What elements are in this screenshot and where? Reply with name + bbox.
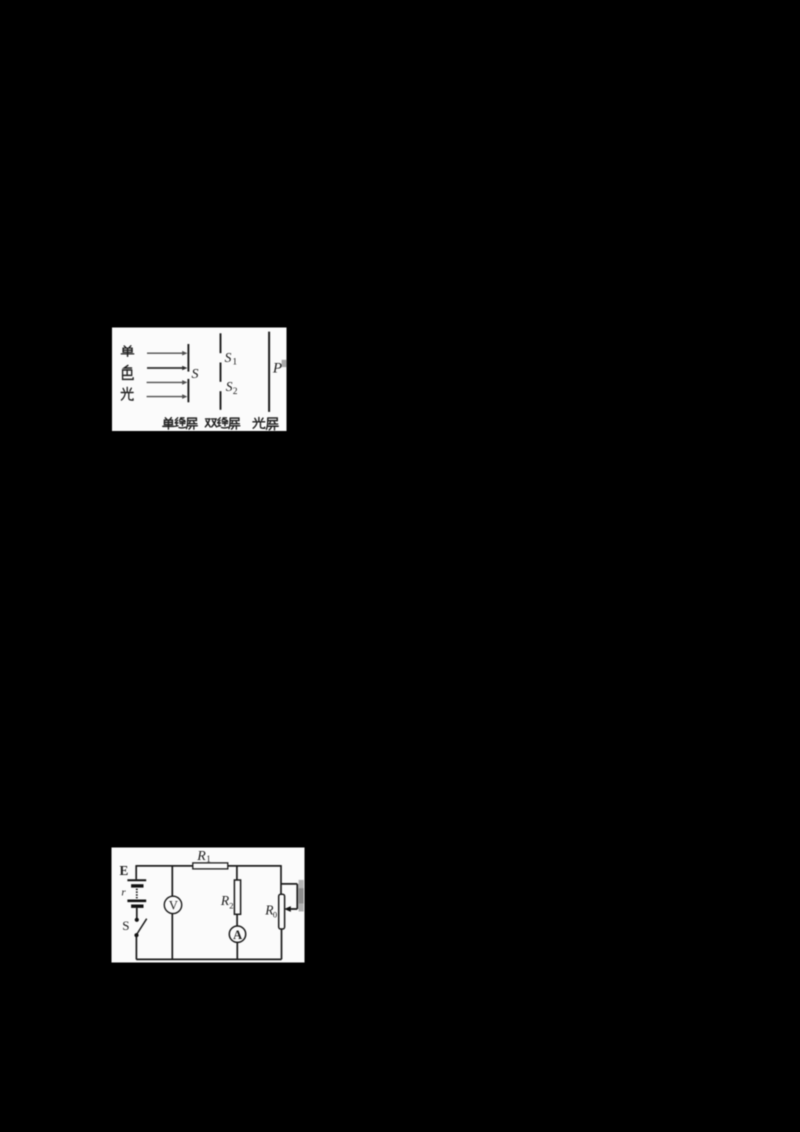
ammeter A circle [229,926,245,942]
gray scan artifact bar middle [299,888,304,904]
rheostat slider wire right vertical [296,884,298,909]
switch blade [137,919,147,935]
svg-text:R: R [196,849,206,864]
double-slit screen top segment [220,333,222,353]
wire switch to bottom [135,936,137,959]
wire battery to switch [136,908,138,919]
voltmeter V circle [164,896,181,913]
svg-text:2: 2 [229,900,233,910]
rheostat slider arrowhead [284,906,291,912]
svg-text:1: 1 [232,358,237,368]
wire left branch upper [135,865,137,879]
double-slit screen bottom segment [220,391,222,410]
switch upper contact dot [135,918,139,922]
label 色 (chrome) [123,365,134,379]
svg-text:r: r [121,887,126,899]
light ray arrow 3 [147,380,188,385]
svg-text:P: P [272,361,282,377]
resistor R1 body [193,863,228,869]
rheostat slider wire lower horizontal [290,908,298,910]
circuit schematic figure panel [112,848,305,963]
gray scan artifact bar bottom [299,904,304,912]
caption 双缝屏 (double-slit screen) [205,418,240,429]
rheostat R0 body [279,894,285,929]
single-slit screen lower segment (slit S gap) [187,379,189,402]
svg-text:S: S [192,367,199,382]
switch lower contact dot [134,933,138,937]
svg-text:A: A [233,928,242,942]
resistor R2 body [234,880,240,914]
light ray arrow 1 [147,351,187,356]
wire bottom horizontal [136,958,281,960]
svg-text:1: 1 [206,854,211,864]
double-slit experiment figure panel [112,328,287,432]
wire top horizontal [136,865,281,867]
battery dotted link [136,889,138,899]
wire voltmeter branch lower [171,914,173,960]
single-slit screen upper segment [187,344,189,372]
battery cell 2 short thick plate [131,905,143,908]
wire R0 to bottom [281,929,283,959]
double-slit screen middle segment [220,363,222,382]
rheostat slider wire top [281,883,297,885]
wire right branch upper [280,865,282,894]
caption 光屏 (light screen) [253,417,278,429]
wire ammeter to bottom [236,942,238,959]
battery cell 1 short thick plate [131,884,143,887]
wire voltmeter branch upper [171,866,173,897]
svg-text:2: 2 [233,387,238,397]
svg-text:S: S [225,350,232,365]
battery cell 1 long plate [127,879,146,881]
svg-text:S: S [226,379,233,394]
label 单 (mono) [121,346,133,357]
svg-text:S: S [122,918,129,933]
gray scan artifact square [282,360,287,367]
gray scan artifact bar top [299,880,304,888]
svg-text:E: E [120,863,129,878]
label 光 (light) [121,387,133,400]
wire R2 branch upper [236,866,238,880]
light ray arrow 2 [147,366,187,371]
light screen line [268,332,270,412]
battery cell 2 long plate [127,899,146,902]
svg-text:V: V [169,898,178,912]
light ray arrow 4 [147,394,188,399]
svg-text:0: 0 [273,909,277,919]
caption 单缝屏 (single-slit screen) [163,418,198,430]
wire R2 to ammeter [236,914,238,926]
